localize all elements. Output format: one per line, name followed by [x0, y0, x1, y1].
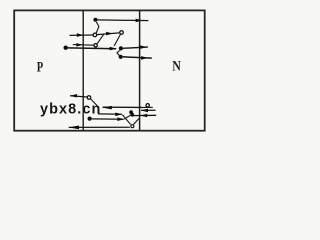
- hole E: [87, 96, 91, 100]
- electron dot C2: [119, 46, 123, 50]
- lower: left arrow from hole E: [70, 96, 87, 97]
- drift arrow left row F2: [141, 109, 156, 111]
- bottom wire with left arrow: [69, 126, 130, 128]
- diagonal E down-right: [91, 99, 97, 106]
- diagonal H-tip up to G cluster: [124, 115, 131, 119]
- electron dots G cluster: [129, 110, 133, 114]
- arrowhead at end of C0 wire: [110, 47, 117, 51]
- hole B2: [120, 31, 124, 35]
- wire D across right junction: [123, 57, 152, 58]
- wire H with right arrow: [92, 118, 124, 120]
- diagonal G-tip to hole I: [122, 115, 130, 125]
- hole drift arrow into B1: [70, 34, 93, 36]
- arrowhead B1-B2: [106, 32, 113, 36]
- hole drift arrow into C: [73, 44, 94, 47]
- arrowhead D wire: [141, 56, 148, 60]
- arrowhead C2 wire: [140, 45, 147, 49]
- long wire C0 to C2: [68, 47, 116, 50]
- wire from A to N side: [97, 19, 148, 22]
- hole B1: [93, 33, 97, 37]
- arrowhead on wire A: [136, 19, 143, 23]
- svg-text:P: P: [37, 60, 43, 76]
- hole C: [94, 44, 97, 47]
- outer border: [14, 10, 205, 130]
- diagonal hole I up-right: [134, 119, 139, 125]
- diagonal B1 to C: [97, 34, 103, 43]
- junction boundary line right: [139, 10, 141, 130]
- recombination diagonal A-B1: [96, 22, 99, 33]
- wire from G cluster across junction with left arrow: [134, 114, 157, 116]
- hole F: [146, 104, 149, 107]
- wire G with right arrow: [98, 113, 122, 115]
- wire C2 across right junction: [123, 47, 148, 48]
- electron dot D: [119, 55, 123, 59]
- hole I: [131, 125, 134, 128]
- svg-text:ybx8.cn: ybx8.cn: [40, 102, 101, 118]
- electron dot H: [88, 117, 92, 121]
- electron dot A: [93, 18, 97, 22]
- wire F with right arrow and hole F: [103, 106, 142, 108]
- diagonal C2 to D: [117, 50, 120, 56]
- electron dot C0: [63, 46, 67, 50]
- junction boundary line left: [82, 10, 84, 130]
- diagonal B2 down to C2: [114, 34, 120, 46]
- svg-text:N: N: [172, 58, 181, 74]
- wire B1 to B2: [97, 33, 119, 35]
- tick under hole F: [140, 106, 153, 108]
